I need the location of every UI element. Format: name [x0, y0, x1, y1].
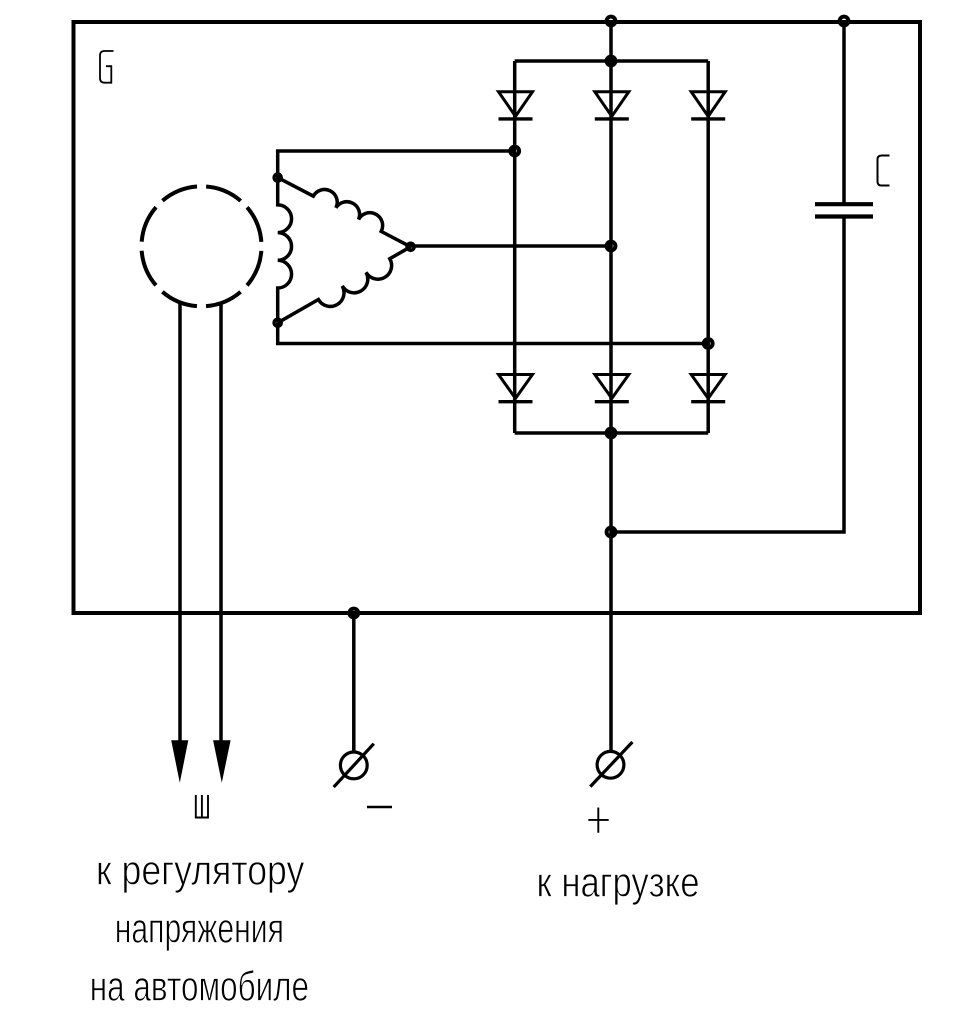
brush wire 2 [219, 303, 223, 741]
label Ш [196, 795, 208, 818]
label minus [367, 806, 392, 808]
node: capacitor return junction [607, 528, 616, 537]
diode VD1 (top left) [499, 92, 533, 119]
wire: minus output [352, 613, 356, 751]
label G [100, 51, 114, 83]
diode VD5 (bottom middle) [595, 375, 629, 402]
label C [878, 156, 890, 186]
node: phase 3 junction [704, 339, 713, 348]
svg-text:напряжения: напряжения [115, 905, 284, 952]
stator winding: bottom phase coil [278, 247, 411, 323]
wire: bridge top rail [515, 59, 709, 63]
diode VD3 (top right) [691, 92, 725, 119]
diode VD6 (bottom right) [691, 375, 725, 402]
node: phase 1 junction [510, 147, 519, 156]
node: delta vertex right [407, 243, 414, 250]
arrow 1 [171, 740, 188, 782]
node: delta vertex top [274, 174, 281, 181]
svg-text:к регулятору: к регулятору [96, 847, 304, 894]
wire: bridge bottom rail [515, 431, 709, 435]
wire: phase 1 to left diode column [278, 151, 515, 178]
stator winding: left phase coil [278, 178, 292, 323]
node: bridge bottom rail junction [607, 429, 616, 438]
label plus [588, 808, 608, 833]
node: top rail / middle column [607, 17, 616, 26]
diode VD2 (top middle) [595, 92, 629, 119]
node: top rail / capacitor [840, 17, 849, 26]
arrow 2 [213, 740, 231, 782]
wire: phase 2 to middle diode column [411, 244, 611, 248]
node: bridge top rail junction [607, 57, 616, 66]
wire: middle column (+ output) [609, 21, 613, 751]
capacitor C plates [815, 204, 873, 216]
terminal: minus clamp [334, 744, 374, 787]
wire: phase 3 to right diode column [278, 323, 709, 344]
terminal: plus clamp [590, 742, 632, 787]
rotor dashed circle [142, 186, 262, 306]
wire: right diode column [706, 61, 710, 433]
generator enclosure border [74, 22, 921, 613]
node: minus tap on bottom border [349, 609, 358, 618]
stator winding: top phase coil [278, 178, 411, 247]
node: delta vertex bottom [274, 319, 281, 326]
svg-text:на автомобиле: на автомобиле [90, 963, 309, 1010]
brush wire 1 [178, 302, 182, 741]
svg-text:к нагрузке: к нагрузке [537, 859, 700, 906]
diode VD4 (bottom left) [499, 375, 533, 402]
wire: left diode column [513, 61, 517, 433]
node: phase 2 junction [607, 242, 616, 251]
wire: capacitor bottom lead to + column [611, 219, 844, 533]
wire: capacitor top lead [842, 21, 846, 203]
